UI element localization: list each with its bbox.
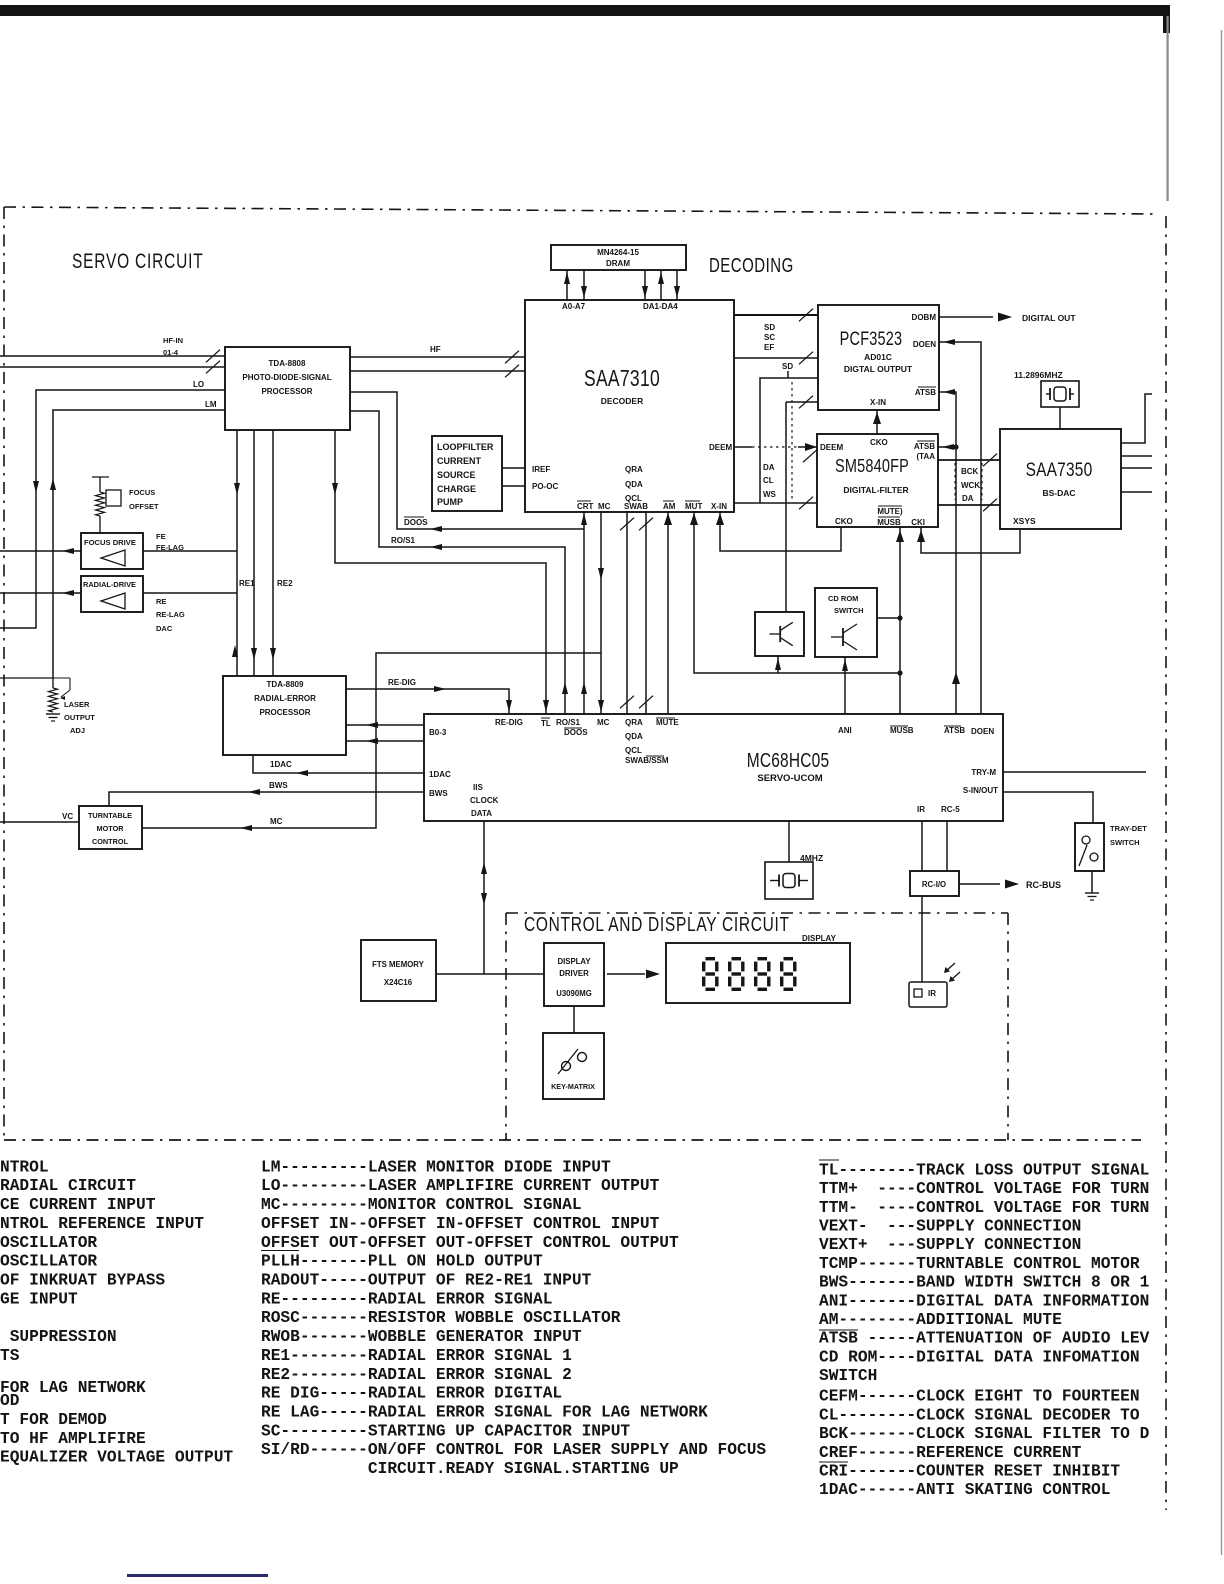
svg-text:CD ROM: CD ROM [828, 594, 858, 603]
svg-text:PCF3523: PCF3523 [840, 327, 903, 350]
wire PCF3523 pin to SD vertical [760, 378, 818, 503]
svg-text:ATSB: ATSB [944, 726, 965, 735]
wire WS bus SAA7310 to SM5840FP [734, 502, 817, 504]
svg-text:TRY-M: TRY-M [971, 768, 996, 777]
svg-text:DRIVER: DRIVER [559, 969, 589, 978]
svg-text:1DAC: 1DAC [429, 770, 451, 779]
svg-text:TRAY-DET: TRAY-DET [1110, 824, 1147, 833]
svg-text:DIGTAL OUTPUT: DIGTAL OUTPUT [844, 364, 913, 374]
svg-text:SI/RD------ON/OFF CONTROL FOR: SI/RD------ON/OFF CONTROL FOR LASER SUPP… [261, 1441, 766, 1459]
wire AM MUTE SAA7310 to MC68HC05 [667, 511, 669, 714]
svg-text:OD: OD [0, 1392, 20, 1410]
svg-text:CONTROL: CONTROL [92, 837, 129, 846]
laser output adj potentiometer [0, 677, 53, 679]
svg-text:TURNTABLE: TURNTABLE [88, 811, 132, 820]
wire transistor Q1 base to mute line [777, 656, 779, 673]
svg-text:QDA: QDA [625, 732, 643, 741]
svg-text:DEEM: DEEM [820, 443, 843, 452]
svg-text:DIGITAL OUT: DIGITAL OUT [1022, 313, 1076, 323]
svg-text:S-IN/OUT: S-IN/OUT [963, 786, 998, 795]
wire DOEN MC68HC05 to PCF3523 [939, 342, 981, 714]
svg-text:DOEN: DOEN [971, 727, 994, 736]
svg-text:BCK: BCK [961, 467, 979, 476]
svg-text:BWS: BWS [429, 789, 448, 798]
svg-text:1DAC------ANTI SKATING CONTROL: 1DAC------ANTI SKATING CONTROL [819, 1481, 1110, 1499]
wire RE1 vertical [253, 430, 255, 676]
svg-text:RC-5: RC-5 [941, 805, 960, 814]
svg-text:DOEN: DOEN [913, 340, 936, 349]
svg-text:CKO: CKO [870, 438, 888, 447]
svg-text:IIS: IIS [473, 783, 483, 792]
wire MC68HC05 IIS bus to display section [483, 821, 485, 974]
svg-text:HF: HF [430, 345, 441, 354]
svg-text:TS: TS [0, 1347, 20, 1365]
wire RC-BUS output arrow [959, 883, 1000, 885]
wire HF pair TDA-8808 to SAA7310 [350, 356, 525, 358]
svg-text:CEFM------CLOCK EIGHT TO FOURT: CEFM------CLOCK EIGHT TO FOURTEEN [819, 1388, 1140, 1406]
svg-text:NTROL REFERENCE INPUT: NTROL REFERENCE INPUT [0, 1215, 204, 1233]
svg-text:ROSC-------RESISTOR WOBBLE OSC: ROSC-------RESISTOR WOBBLE OSCILLATOR [261, 1309, 621, 1327]
svg-text:X24C16: X24C16 [384, 978, 413, 987]
svg-text:SWAB/SSM: SWAB/SSM [625, 756, 669, 765]
display driver block [544, 943, 604, 1006]
IC PCF3523 digital output [818, 305, 939, 410]
svg-text:MUTE): MUTE) [877, 507, 903, 516]
svg-text:TL: TL [541, 719, 551, 728]
svg-text:MUSB: MUSB [890, 726, 914, 735]
svg-text:VEXT+ ---SUPPLY CONNECTION: VEXT+ ---SUPPLY CONNECTION [819, 1236, 1081, 1254]
wire RE-DIG TDA-8809 to MC68HC05 [346, 689, 509, 714]
svg-text:RO/S1: RO/S1 [391, 536, 416, 545]
svg-text:WS: WS [763, 490, 777, 499]
svg-text:ANI: ANI [838, 726, 852, 735]
svg-text:AD01C: AD01C [864, 352, 892, 362]
wire QRA QDA QCL SWAB bus SAA7310 to MC68HC05 [626, 511, 628, 714]
wire LM laser monitor input [53, 410, 225, 678]
svg-text:HF-IN: HF-IN [163, 336, 183, 345]
IC MN4264-15 DRAM [551, 245, 686, 270]
loopfilter charge pump block [432, 436, 502, 511]
svg-text:SAA7310: SAA7310 [584, 367, 660, 392]
page right edge line [1221, 30, 1223, 1555]
svg-text:LASER: LASER [64, 700, 90, 709]
wires SAA7350 audio outputs [1121, 394, 1152, 443]
svg-text:MC: MC [270, 817, 283, 826]
svg-text:RWOB-------WOBBLE GENERATOR IN: RWOB-------WOBBLE GENERATOR INPUT [261, 1328, 582, 1346]
svg-text:CL: CL [763, 476, 774, 485]
wire TL track loss TDA-8808 to MC68HC05 [335, 430, 546, 714]
svg-text:RE-DIG: RE-DIG [495, 718, 523, 727]
svg-text:SERVO-UCOM: SERVO-UCOM [757, 773, 822, 784]
svg-text:EQUALIZER VOLTAGE OUTPUT: EQUALIZER VOLTAGE OUTPUT [0, 1449, 233, 1467]
svg-text:QRA: QRA [625, 718, 643, 727]
svg-text:TO HF AMPLIFIRE: TO HF AMPLIFIRE [0, 1430, 146, 1448]
svg-text:CREF------REFERENCE CURRENT: CREF------REFERENCE CURRENT [819, 1444, 1082, 1462]
svg-text:VEXT- ---SUPPLY CONNECTION: VEXT- ---SUPPLY CONNECTION [819, 1218, 1081, 1236]
svg-text:OSCILLATOR: OSCILLATOR [0, 1253, 97, 1271]
wire display driver to key-matrix [573, 1006, 575, 1033]
wire CD ROM switch collector to MUSB line [877, 617, 900, 619]
wire CKO SM5840FP to PCF3523 X-IN [876, 410, 878, 434]
svg-text:PROCESSOR: PROCESSOR [261, 387, 312, 396]
key-matrix block [543, 1033, 604, 1099]
svg-text:SD: SD [782, 362, 793, 371]
focus offset potentiometer [92, 476, 109, 478]
svg-text:FOR LAG NETWORK: FOR LAG NETWORK [0, 1379, 146, 1397]
wire HF-IN 01-4 input pair [0, 355, 225, 357]
wire RO/S1 TDA-8808 to MC68HC05 [350, 411, 565, 714]
svg-text:IR: IR [917, 805, 925, 814]
svg-text:OFFSET OUT-OFFSET OUT-OFFSET C: OFFSET OUT-OFFSET OUT-OFFSET CONTROL OUT… [261, 1234, 679, 1252]
svg-text:DISPLAY: DISPLAY [802, 934, 837, 943]
svg-text:TCMP------TURNTABLE CONTROL MO: TCMP------TURNTABLE CONTROL MOTOR [819, 1255, 1140, 1273]
svg-text:1DAC: 1DAC [270, 760, 292, 769]
svg-text:RO/S1: RO/S1 [556, 718, 581, 727]
servo circuit dash-dot border top [4, 207, 1157, 214]
svg-text:RE-LAG: RE-LAG [156, 610, 185, 619]
svg-text:IREF: IREF [532, 465, 550, 474]
svg-text:LM: LM [205, 400, 217, 409]
svg-text:MC: MC [597, 718, 610, 727]
wire BWS MC68HC05 to turntable control [109, 792, 424, 806]
svg-text:IR: IR [928, 989, 936, 998]
wire TRY-M output [1003, 771, 1146, 773]
wires SAA7310 to DRAM A0-A7 [566, 270, 568, 300]
tray-det switch [1075, 823, 1104, 871]
svg-text:OFFSET: OFFSET [129, 502, 159, 511]
svg-text:QCL: QCL [625, 746, 642, 755]
wire SD SC EF bus SAA7310 to PCF3523 [734, 314, 818, 316]
wires MC68HC05 IR and RC-5 to RC-I/O [921, 821, 923, 871]
svg-text:SM5840FP: SM5840FP [835, 455, 909, 476]
svg-text:SAA7350: SAA7350 [1026, 458, 1093, 480]
svg-text:MC: MC [598, 502, 611, 511]
wire MC68HC05 to 4MHZ crystal [788, 821, 790, 862]
svg-text:01-4: 01-4 [163, 348, 179, 357]
svg-text:CD ROM----DIGITAL DATA INFOMAT: CD ROM----DIGITAL DATA INFOMATION [819, 1348, 1140, 1366]
wire IDAC TDA-8809 to MC68HC05 [253, 755, 424, 773]
svg-text:FOCUS DRIVE: FOCUS DRIVE [84, 538, 136, 547]
wires loopfilter to SAA7310 IREF and PO-OC [502, 467, 525, 469]
turntable motor control block [79, 806, 142, 849]
svg-text:RC-I/O: RC-I/O [922, 880, 946, 889]
svg-text:SWITCH: SWITCH [1110, 838, 1140, 847]
svg-text:DIGITAL-FILTER: DIGITAL-FILTER [843, 485, 908, 495]
svg-text:DECODING: DECODING [709, 254, 794, 277]
transistor Q1 block [755, 612, 804, 656]
wire X-IN clock CKO SM5840 to SAA7310 [720, 511, 841, 551]
wire FTS memory to display driver [436, 973, 544, 975]
svg-text:SC---------STARTING UP CAPACIT: SC---------STARTING UP CAPACITOR INPUT [261, 1422, 630, 1440]
wire BCK WCK DA bus SM5840FP to SAA7350 [938, 459, 1000, 461]
svg-text:CRI-------COUNTER RESET INHIBI: CRI-------COUNTER RESET INHIBIT [819, 1463, 1120, 1481]
svg-text:TTM+ ----CONTROL VOLTAGE FOR: TTM+ ----CONTROL VOLTAGE FOR TURN [819, 1180, 1149, 1198]
IC SAA7310 decoder [525, 300, 734, 512]
IC SM5840FP digital filter [817, 434, 938, 527]
svg-text:TDA-8809: TDA-8809 [267, 680, 304, 689]
wire RC-I/O to IR receiver [921, 896, 923, 982]
svg-text:LM---------LASER MONITOR DIODE: LM---------LASER MONITOR DIODE INPUT [261, 1158, 611, 1176]
svg-text:DOOS: DOOS [404, 518, 428, 527]
svg-text:SD: SD [764, 323, 775, 332]
bottom blue mark [127, 1574, 268, 1577]
svg-text:LO---------LASER AMPLIFIRE CUR: LO---------LASER AMPLIFIRE CURRENT OUTPU… [261, 1177, 660, 1195]
svg-text:BWS-------BAND WIDTH SWITCH 8: BWS-------BAND WIDTH SWITCH 8 OR 1 [819, 1274, 1150, 1292]
wire FE vertical TDA-8808 to TDA-8809 [236, 430, 238, 676]
svg-text:FE: FE [156, 532, 166, 541]
svg-text:DRAM: DRAM [606, 259, 630, 268]
IC SAA7350 bitstream DAC [1000, 429, 1121, 529]
svg-text:XSYS: XSYS [1013, 516, 1036, 526]
svg-text:RC-BUS: RC-BUS [1026, 880, 1061, 890]
svg-text:FOCUS: FOCUS [129, 488, 155, 497]
wire FE FE-LAG focus drive output to page edge [0, 550, 81, 552]
svg-text:FE-LAG: FE-LAG [156, 543, 184, 552]
svg-text:DISPLAY: DISPLAY [557, 957, 591, 966]
svg-text:RE-DIG: RE-DIG [388, 678, 416, 687]
svg-text:MC---------MONITOR CONTROL SIG: MC---------MONITOR CONTROL SIGNAL [261, 1196, 582, 1214]
wire RE RE-LAG DAC radial drive output to page edge [0, 592, 81, 594]
svg-text:CL--------CLOCK SIGNAL DECODER: CL--------CLOCK SIGNAL DECODER TO [819, 1406, 1140, 1424]
svg-text:RADOUT-----OUTPUT OF RE2-RE1 I: RADOUT-----OUTPUT OF RE2-RE1 INPUT [261, 1272, 592, 1290]
wire ATSB net MC68HC05 to PCF3523 and SM5840FP [939, 392, 956, 714]
svg-text:CURRENT: CURRENT [437, 456, 482, 466]
svg-text:AM: AM [663, 502, 676, 511]
svg-text:CKI: CKI [911, 518, 925, 527]
FTS memory block [361, 940, 436, 1001]
wire B0-3 bus MC68HC05 to TDA-8809 [346, 724, 424, 726]
wire CRT DOOS vertical SAA7310 to MC68HC05 [583, 511, 585, 714]
wire MUT mute net SAA7310 [694, 511, 900, 673]
svg-text:SOURCE: SOURCE [437, 470, 476, 480]
svg-text:CLOCK: CLOCK [470, 796, 499, 805]
svg-text:DECODER: DECODER [601, 396, 644, 406]
wire driver to display arrow [607, 973, 645, 975]
svg-text:LO: LO [193, 380, 204, 389]
wire transistor Q1 collector SD line [785, 402, 787, 612]
svg-text:11.2896MHZ: 11.2896MHZ [1014, 370, 1063, 380]
svg-text:RE2--------RADIAL ERROR SIGNAL: RE2--------RADIAL ERROR SIGNAL 2 [261, 1366, 572, 1384]
svg-text:A0-A7: A0-A7 [562, 302, 586, 311]
svg-text:SC: SC [764, 333, 775, 342]
CD ROM switch block (transistor Q2) [815, 588, 877, 657]
svg-text:SUPPRESSION: SUPPRESSION [10, 1328, 117, 1346]
wire MC monitor control net [600, 511, 602, 714]
svg-text:CKO: CKO [835, 517, 853, 526]
svg-text:BCK-------CLOCK SIGNAL FILTER: BCK-------CLOCK SIGNAL FILTER TO D [819, 1425, 1150, 1443]
svg-text:KEY-MATRIX: KEY-MATRIX [551, 1082, 595, 1091]
svg-text:CONTROL AND DISPLAY CIRCUIT: CONTROL AND DISPLAY CIRCUIT [524, 913, 790, 935]
wire MUSB MC68HC05 to SM5840FP [899, 527, 901, 714]
wire SD subcode SAA7310 to PCF3523 [734, 357, 818, 359]
svg-text:RE DIG-----RADIAL ERROR DIGITA: RE DIG-----RADIAL ERROR DIGITAL [261, 1385, 562, 1403]
svg-text:U3090MG: U3090MG [556, 989, 592, 998]
RC-I/O block [910, 871, 959, 896]
wire DOBM digital out [939, 316, 993, 318]
svg-text:OF INKRUAT BYPASS: OF INKRUAT BYPASS [0, 1272, 165, 1290]
svg-text:TDA-8808: TDA-8808 [269, 359, 306, 368]
svg-text:OSCILLATOR: OSCILLATOR [0, 1234, 97, 1252]
svg-text:X-IN: X-IN [711, 502, 727, 511]
wire tray switch to ground [1091, 871, 1093, 893]
wire RE2 vertical [272, 430, 274, 676]
svg-text:DA1-DA4: DA1-DA4 [643, 302, 678, 311]
svg-text:SWITCH: SWITCH [834, 606, 864, 615]
focus drive amplifier [81, 533, 143, 569]
wire CD ROM switch base ANI from MC68HC05 [844, 657, 846, 714]
wires SAA7310 to DRAM DA1-DA4 [644, 270, 646, 300]
IR remote receiver block [909, 982, 947, 1007]
svg-text:CHARGE: CHARGE [437, 484, 476, 494]
svg-text:ADJ: ADJ [70, 726, 85, 735]
svg-text:NTROL: NTROL [0, 1158, 49, 1176]
IC MC68HC05 servo microcontroller [424, 714, 1003, 821]
svg-text:QDA: QDA [625, 480, 643, 489]
svg-text:DEEM: DEEM [709, 443, 732, 452]
svg-text:ATSB: ATSB [914, 442, 935, 451]
svg-text:ATSB -----ATTENUATION OF AUDIO: ATSB -----ATTENUATION OF AUDIO LEV [819, 1330, 1150, 1348]
radial drive amplifier [81, 576, 143, 612]
svg-text:PUMP: PUMP [437, 497, 463, 507]
svg-text:RADIAL-ERROR: RADIAL-ERROR [254, 694, 316, 703]
svg-text:CE CURRENT INPUT: CE CURRENT INPUT [0, 1196, 156, 1214]
wire PCF3523 lower pin to transistor SD line [786, 401, 818, 403]
wire LO laser amplifier output [0, 390, 225, 628]
svg-text:PROCESSOR: PROCESSOR [259, 708, 310, 717]
svg-text:X-IN: X-IN [870, 398, 886, 407]
svg-text:T FOR DEMOD: T FOR DEMOD [0, 1411, 107, 1429]
wire DOOS TDA-8808 to CRT node [350, 392, 584, 529]
svg-text:SERVO CIRCUIT: SERVO CIRCUIT [72, 248, 203, 272]
svg-text:PLLH-------PLL ON HOLD OUTPUT: PLLH-------PLL ON HOLD OUTPUT [261, 1253, 543, 1271]
svg-text:EF: EF [764, 343, 774, 352]
svg-text:RADIAL-DRIVE: RADIAL-DRIVE [83, 580, 136, 589]
svg-text:FTS MEMORY: FTS MEMORY [372, 960, 424, 969]
svg-text:AM--------ADDITIONAL MUTE: AM--------ADDITIONAL MUTE [819, 1311, 1062, 1329]
svg-text:DAC: DAC [156, 624, 173, 633]
svg-text:BS-DAC: BS-DAC [1042, 488, 1075, 498]
svg-text:VC: VC [62, 812, 73, 821]
servo circuit dash-dot border right [1165, 216, 1167, 1510]
svg-text:PO-OC: PO-OC [532, 482, 558, 491]
svg-text:CIRCUIT.READY SIGNAL.STARTING: CIRCUIT.READY SIGNAL.STARTING UP [368, 1460, 679, 1478]
svg-text:MOTOR: MOTOR [96, 824, 124, 833]
svg-text:MUT: MUT [685, 502, 702, 511]
svg-text:TL--------TRACK LOSS OUTPUT SI: TL--------TRACK LOSS OUTPUT SIGNAL [819, 1161, 1149, 1179]
page top black bar [0, 5, 1170, 16]
wire S-IN/OUT to tray switch [1003, 792, 1093, 823]
svg-text:LOOPFILTER: LOOPFILTER [437, 442, 494, 452]
svg-text:RE---------RADIAL ERROR SIGNAL: RE---------RADIAL ERROR SIGNAL [261, 1290, 552, 1308]
svg-text:RADIAL CIRCUIT: RADIAL CIRCUIT [0, 1177, 136, 1195]
control and display circuit dash-dot box [506, 912, 1008, 914]
svg-text:OUTPUT: OUTPUT [64, 713, 95, 722]
svg-text:MN4264-15: MN4264-15 [597, 248, 639, 257]
svg-text:(TAA: (TAA [916, 452, 935, 461]
svg-text:TTM- ----CONTROL VOLTAGE FOR: TTM- ----CONTROL VOLTAGE FOR TURN [819, 1199, 1149, 1217]
svg-text:RE1: RE1 [239, 579, 255, 588]
servo circuit dash-dot border left [3, 207, 5, 1140]
svg-text:DA: DA [763, 463, 775, 472]
svg-text:MC68HC05: MC68HC05 [747, 749, 830, 771]
dotted bus line DA CL WS [791, 382, 793, 500]
svg-text:SWAB: SWAB [624, 502, 648, 511]
svg-text:RE: RE [156, 597, 166, 606]
svg-text:PHOTO-DIODE-SIGNAL: PHOTO-DIODE-SIGNAL [242, 373, 331, 382]
svg-text:RE LAG-----RADIAL ERROR SIGNAL: RE LAG-----RADIAL ERROR SIGNAL FOR LAG N… [261, 1404, 708, 1422]
svg-text:RE2: RE2 [277, 579, 293, 588]
svg-text:DA: DA [962, 494, 974, 503]
wire crystal to SAA7350 [1059, 407, 1061, 429]
IC TDA-8809 radial error processor [223, 676, 346, 755]
svg-text:ANI-------DIGITAL DATA INFORMA: ANI-------DIGITAL DATA INFORMATION [819, 1292, 1149, 1310]
svg-text:QRA: QRA [625, 465, 643, 474]
servo circuit dash-dot border bottom [4, 1139, 1141, 1141]
IC TDA-8808 photo-diode-signal processor [225, 347, 350, 430]
svg-text:MUTE: MUTE [656, 718, 679, 727]
wire XSYS SAA7350 to SM5840FP CKI [921, 527, 1020, 553]
svg-text:DATA: DATA [471, 809, 492, 818]
svg-text:MUSB: MUSB [877, 518, 901, 527]
svg-text:WCK: WCK [961, 481, 980, 490]
svg-text:ATSB: ATSB [915, 388, 936, 397]
svg-text:BWS: BWS [269, 781, 288, 790]
svg-text:OFFSET IN--OFFSET IN-OFFSET CO: OFFSET IN--OFFSET IN-OFFSET CONTROL INPU… [261, 1215, 660, 1233]
svg-text:CRT: CRT [577, 502, 594, 511]
svg-text:RE1--------RADIAL ERROR SIGNAL: RE1--------RADIAL ERROR SIGNAL 1 [261, 1347, 572, 1365]
svg-text:DOBM: DOBM [912, 313, 937, 322]
svg-text:SWITCH: SWITCH [819, 1367, 877, 1385]
svg-text:B0-3: B0-3 [429, 728, 447, 737]
svg-text:DOOS: DOOS [564, 728, 588, 737]
wire DEEM SAA7310 to SM5840FP [734, 446, 752, 448]
svg-text:GE INPUT: GE INPUT [0, 1290, 78, 1308]
